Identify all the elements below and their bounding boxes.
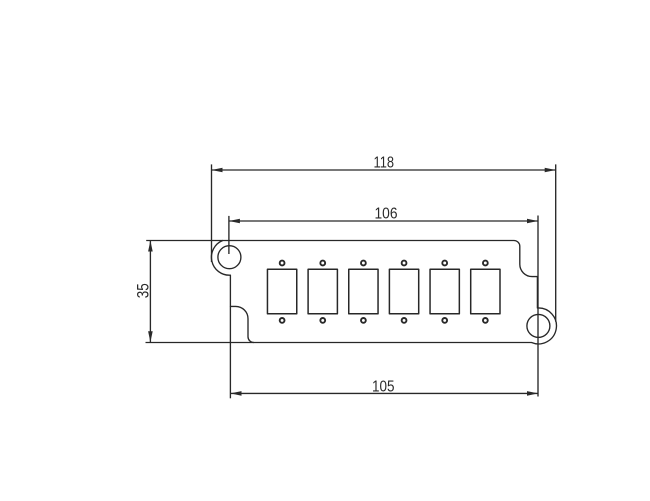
arrow 106 right [527,219,538,224]
svg-text:105: 105 [372,379,395,396]
arrow 118 left [212,168,223,173]
pilot holes cutout 3 [361,261,366,323]
adapter cutout 4 [389,269,418,314]
dimension 105 line [231,392,539,394]
arrow 35 top [148,241,153,252]
svg-text:118: 118 [374,155,395,172]
adapter cutout 1 [267,269,296,314]
dimension 35 extension line bottom [146,342,255,344]
pilot holes cutout 6 [483,261,488,323]
dimension 35 line [149,241,151,343]
pilot holes cutout 5 [442,261,447,323]
mounting hole top-left [218,246,241,269]
adapter cutout 6 [471,269,500,314]
dimension 118 line [212,169,556,171]
pilot holes cutout 4 [402,261,407,323]
dimension 106/105 extension line right [537,216,539,397]
arrow 35 bottom [148,331,153,342]
svg-text:106: 106 [375,206,398,223]
dimension 105 extension line left [229,306,231,398]
arrow 105 right [527,391,538,396]
adapter cutout 5 [430,269,459,314]
arrow 105 left [231,391,242,396]
arrow 118 right [545,168,556,173]
svg-text:35: 35 [135,283,153,298]
plate outline [211,241,556,344]
pilot holes cutout 2 [320,261,325,323]
dimension 118 extension line left [211,164,213,262]
dimension 35 extension line top [146,240,223,242]
pilot holes cutout 1 [280,261,285,323]
dimension 106 extension line left [228,216,230,254]
mounting hole bottom-right [527,314,550,337]
dimension 118 extension line right [555,164,557,321]
adapter cutout 2 [308,269,337,314]
adapter cutout 3 [349,269,378,314]
arrow 106 left [229,219,240,224]
dimension 106 line [229,220,538,222]
